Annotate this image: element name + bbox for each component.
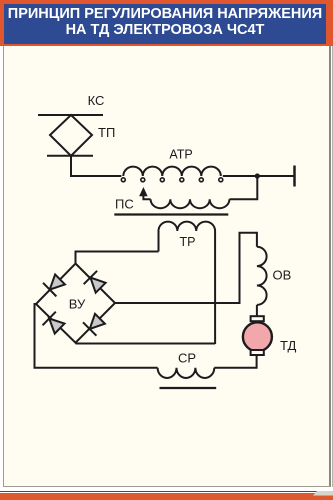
transformer core: [114, 213, 228, 215]
wire VU left down to bottom bus: [35, 304, 158, 368]
svg-text:АТР: АТР: [169, 148, 192, 162]
transformer TP primary winding: [151, 199, 230, 208]
wire OV to brush: [256, 305, 258, 316]
wire CP to TD: [214, 355, 256, 368]
node KC top line: [38, 114, 103, 116]
rectifier VU diamond: [36, 264, 115, 343]
wire TP primary to junction: [229, 176, 257, 199]
svg-text:КС: КС: [88, 93, 105, 108]
terminal bar: [293, 166, 296, 187]
svg-text:ТР: ТР: [180, 235, 196, 249]
field winding OV: [257, 247, 267, 305]
ATP tap circles: [121, 178, 223, 182]
page curl tab: [313, 491, 333, 496]
diode D4 bottom-right: [83, 312, 107, 336]
svg-text:ВУ: ВУ: [69, 297, 86, 312]
wire PS arrow to TP primary: [143, 195, 150, 199]
wire ATP to terminal: [223, 175, 295, 177]
diode D1 top-left: [43, 273, 67, 297]
bottom orange bar: [0, 493, 333, 500]
svg-text:СР: СР: [178, 351, 196, 366]
pantograph TP diamond: [50, 115, 92, 156]
wire secondary left to VU top: [76, 252, 159, 264]
switch PS arrow: [140, 188, 147, 196]
wire TP to ATP: [71, 156, 121, 176]
TP bottom line: [47, 155, 93, 157]
header orange frame: [0, 0, 333, 46]
svg-text:ТП: ТП: [98, 125, 115, 140]
svg-text:ПС: ПС: [115, 197, 134, 212]
diode D2 top-right: [84, 271, 108, 295]
node junction dot: [255, 173, 260, 178]
transformer TP secondary winding: [159, 222, 216, 344]
autotransformer ATP winding: [123, 167, 221, 176]
CP core: [160, 387, 217, 389]
svg-text:ОВ: ОВ: [273, 267, 292, 282]
motor TD: [243, 322, 272, 351]
smoothing reactor CP winding: [158, 368, 215, 378]
header blue title box: [4, 4, 326, 44]
brush bottom: [251, 350, 264, 355]
diode D3 bottom-left: [43, 312, 67, 336]
wire VU bottom to secondary right: [76, 343, 216, 345]
brush top: [251, 316, 264, 321]
svg-text:ТД: ТД: [280, 338, 297, 353]
wire VU right to OV: [115, 233, 257, 303]
